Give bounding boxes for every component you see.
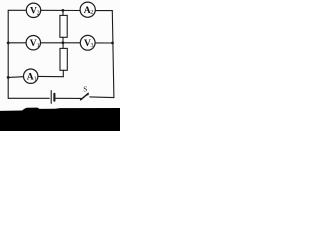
- svg-text:V: V: [30, 39, 37, 49]
- wire middle-row left segment: [8, 42, 26, 44]
- svg-text:S: S: [83, 86, 87, 94]
- wire ammeter-row right segment: [38, 75, 63, 77]
- svg-text:A: A: [27, 73, 34, 83]
- battery short plate: [53, 94, 55, 101]
- wire R1 bottom stub: [62, 37, 64, 43]
- svg-text:1: 1: [37, 43, 40, 49]
- switch label S: [83, 86, 87, 94]
- svg-text:2: 2: [90, 10, 93, 16]
- voltmeter V3: [80, 35, 95, 50]
- wire bottom-left segment: [8, 97, 49, 99]
- wire top-right segment: [95, 10, 112, 12]
- wire battery-to-switch segment: [56, 97, 81, 99]
- resistor R1: [60, 15, 67, 37]
- wire top-left segment: [8, 9, 26, 11]
- voltmeter V1: [26, 36, 40, 50]
- node top junction: [62, 9, 65, 12]
- switch blade: [81, 93, 89, 99]
- wire switch-to-corner segment: [90, 96, 114, 99]
- wire middle-row right segment: [95, 42, 113, 44]
- wire R2 top stub: [62, 43, 64, 49]
- node middle junction: [62, 41, 65, 44]
- node middle-right junction: [111, 42, 114, 45]
- resistor R2: [60, 48, 67, 70]
- node switch contact: [87, 93, 89, 95]
- wire ammeter-row left segment: [8, 76, 23, 79]
- wire R1 top stub: [62, 10, 64, 15]
- wire right vertical: [112, 11, 114, 98]
- wire left vertical: [7, 10, 9, 98]
- battery long plate: [50, 91, 52, 104]
- ammeter A1: [24, 69, 38, 83]
- svg-text:1: 1: [34, 76, 37, 82]
- svg-text:3: 3: [91, 43, 94, 49]
- wire R2 bottom stub: [62, 70, 64, 76]
- node ammeter-row left junction: [7, 76, 10, 79]
- svg-text:2: 2: [37, 10, 40, 16]
- voltmeter V2: [26, 3, 40, 17]
- ammeter A2: [80, 2, 95, 17]
- wire top-middle segment: [41, 9, 81, 11]
- node middle-left junction: [7, 42, 10, 45]
- wire middle-row centre segment: [40, 42, 80, 44]
